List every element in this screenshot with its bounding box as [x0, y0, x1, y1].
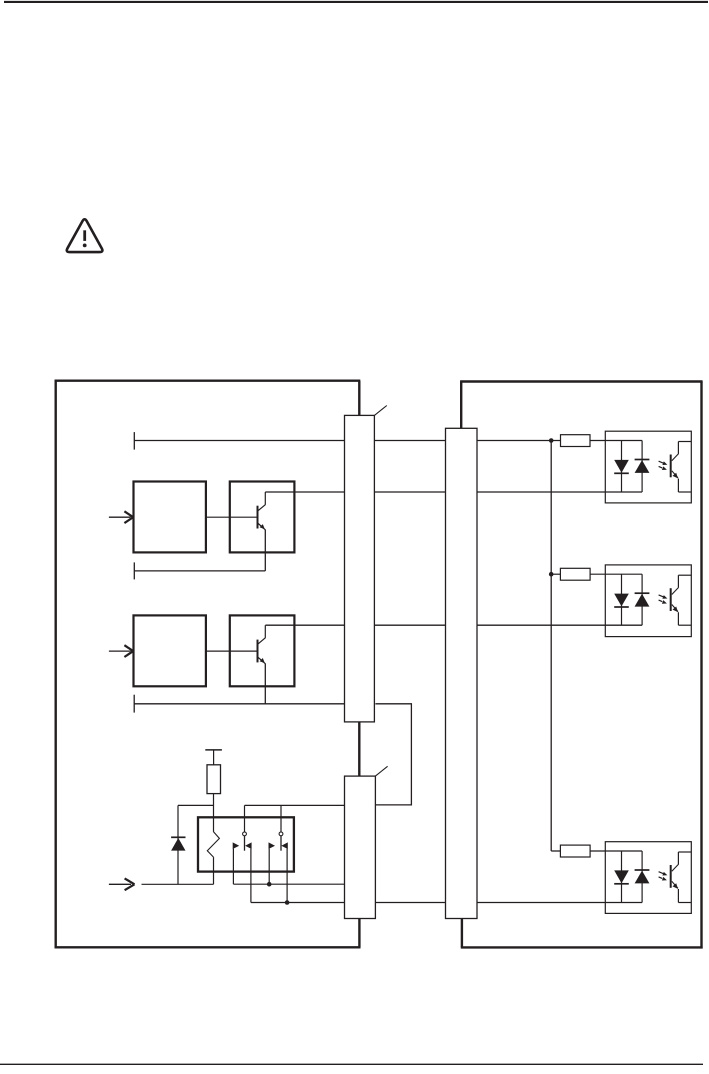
net 24V wire right of bar X2 — [477, 440, 561, 442]
current source pair 1 center bar — [244, 836, 246, 851]
diode D1 — [171, 838, 185, 851]
net B wire between bars — [375, 902, 445, 904]
junction dot J4 — [285, 900, 290, 905]
connector bar X1 (upper left) — [345, 415, 375, 722]
wire block to transistor row 2 — [206, 650, 258, 652]
net OUT2 between bars — [374, 624, 445, 626]
input conditioning block row 1 — [134, 482, 206, 553]
wire R2 to opto 2 — [590, 573, 642, 575]
optocoupler IC1 light arrows — [659, 461, 666, 464]
wire resistor bottom to current regulator — [213, 794, 215, 832]
wire J2 to R2 — [551, 573, 560, 575]
resistor R2 — [560, 568, 590, 580]
optocoupler IC3 phototransistor — [670, 865, 672, 888]
connector bar X3 slash mark — [375, 766, 387, 776]
net 24V top wire, left segment with terminal tick — [133, 432, 135, 450]
junction dot J2 — [549, 572, 554, 577]
current source pair 2 arrows — [269, 842, 276, 849]
optocoupler IC1 body — [605, 431, 691, 503]
emitter drop wire row 2 — [264, 664, 266, 704]
net IN3 wire arrow to regulator — [142, 883, 214, 885]
optocoupler IC2 LED leg wires — [621, 574, 623, 625]
optocoupler IC2 phototransistor — [670, 588, 672, 611]
leg wire pair2 right to net B — [286, 849, 288, 903]
net OUT2 right of bar X2 to opto 2 — [477, 624, 642, 626]
net OUT1 between bars — [374, 491, 445, 493]
net bias wire resistor to diode — [178, 804, 214, 806]
junction dot J1 — [549, 438, 554, 443]
current source pair 1 circle — [243, 832, 247, 836]
net OUT2: collector wire row 2 to bar X1 — [265, 624, 344, 626]
current source pair 2 center bar — [280, 836, 282, 851]
optocoupler IC3 LED leg wires — [621, 851, 623, 903]
leg wire pair1 left to net A — [232, 849, 234, 885]
right module box outline — [460, 380, 702, 382]
net 0V row 2 emitter wire with terminal tick — [133, 695, 135, 713]
net B wire to bar X3 — [251, 902, 345, 904]
optocoupler IC1 LED down — [614, 460, 629, 473]
transistor Q1 — [257, 506, 259, 529]
wire R3 to opto 3 — [590, 850, 642, 852]
connector bar X1 slash mark — [374, 406, 386, 416]
optocoupler IC3 body — [605, 842, 691, 914]
connector bar X2 (right) — [446, 428, 478, 918]
optocoupler IC1 LED leg wires — [621, 441, 623, 493]
wire loop bar X1 to bar X3 — [375, 704, 411, 805]
power rail T-bar symbol — [205, 749, 222, 751]
net OUT1: collector wire row 1 to bar X1 — [265, 491, 344, 493]
input arrow row 3 — [109, 883, 131, 885]
net A wire to bar X3 — [233, 883, 344, 885]
net OUT1 right of bar X2 to opto 1 — [477, 491, 642, 493]
net 0V row 1 emitter wire with terminal tick — [133, 562, 135, 579]
leg wire pair1 right to net B — [250, 849, 252, 903]
resistor R4 (vertical pull-up) — [207, 765, 221, 794]
optocoupler IC2 body — [605, 565, 691, 637]
net 24V wire between bars — [374, 440, 445, 442]
connector bar X3 (lower left) — [345, 776, 376, 918]
transistor Q2 — [257, 640, 259, 663]
wire block to transistor row 1 — [206, 516, 258, 518]
optocoupler IC1 phototransistor — [670, 455, 672, 478]
optocoupler IC3 LED up — [635, 871, 650, 884]
optocoupler IC3 light arrows — [659, 872, 666, 875]
input arrow row 1 — [109, 516, 131, 518]
resistor R3 — [560, 845, 590, 857]
optocoupler IC2 LED down — [614, 594, 629, 607]
diode D1 vertical wire — [177, 805, 179, 884]
left module box outline — [55, 380, 361, 382]
optocoupler IC3 LED down — [614, 870, 629, 883]
optocoupler IC2 light arrows — [659, 595, 666, 598]
current source pair 1 feed wire — [244, 805, 246, 832]
emitter drop wire row 1 — [264, 530, 266, 571]
current source pair 1 arrows — [233, 842, 240, 849]
input arrow row 2 — [109, 650, 131, 652]
resistor R1 — [561, 435, 591, 447]
optocoupler IC2 LED up — [635, 594, 650, 607]
net bias upper wire to bar X3 — [245, 804, 345, 806]
current source pair 2 circle — [279, 832, 283, 836]
vertical distribution wire from J1 down to opto 3 resistor — [550, 441, 552, 852]
zigzag current-setting element — [207, 832, 219, 857]
page header rule — [4, 1, 708, 3]
wire R1 to opto 1 — [590, 440, 642, 442]
optocoupler IC1 LED up — [635, 460, 650, 473]
input conditioning block row 2 — [134, 615, 206, 686]
leg wire pair2 left to net A — [268, 849, 270, 885]
warning triangle icon — [67, 219, 103, 252]
net B wire right of bar X2 to opto 3 — [477, 902, 642, 904]
junction dot J3 — [267, 882, 272, 887]
zigzag tail wire to input net — [213, 857, 215, 884]
output transistor block row 1 — [230, 482, 295, 553]
page footer rule — [0, 1063, 703, 1065]
current regulator block — [198, 817, 294, 871]
output transistor block row 2 — [230, 615, 295, 686]
current source pair 2 feed wire — [280, 805, 282, 832]
